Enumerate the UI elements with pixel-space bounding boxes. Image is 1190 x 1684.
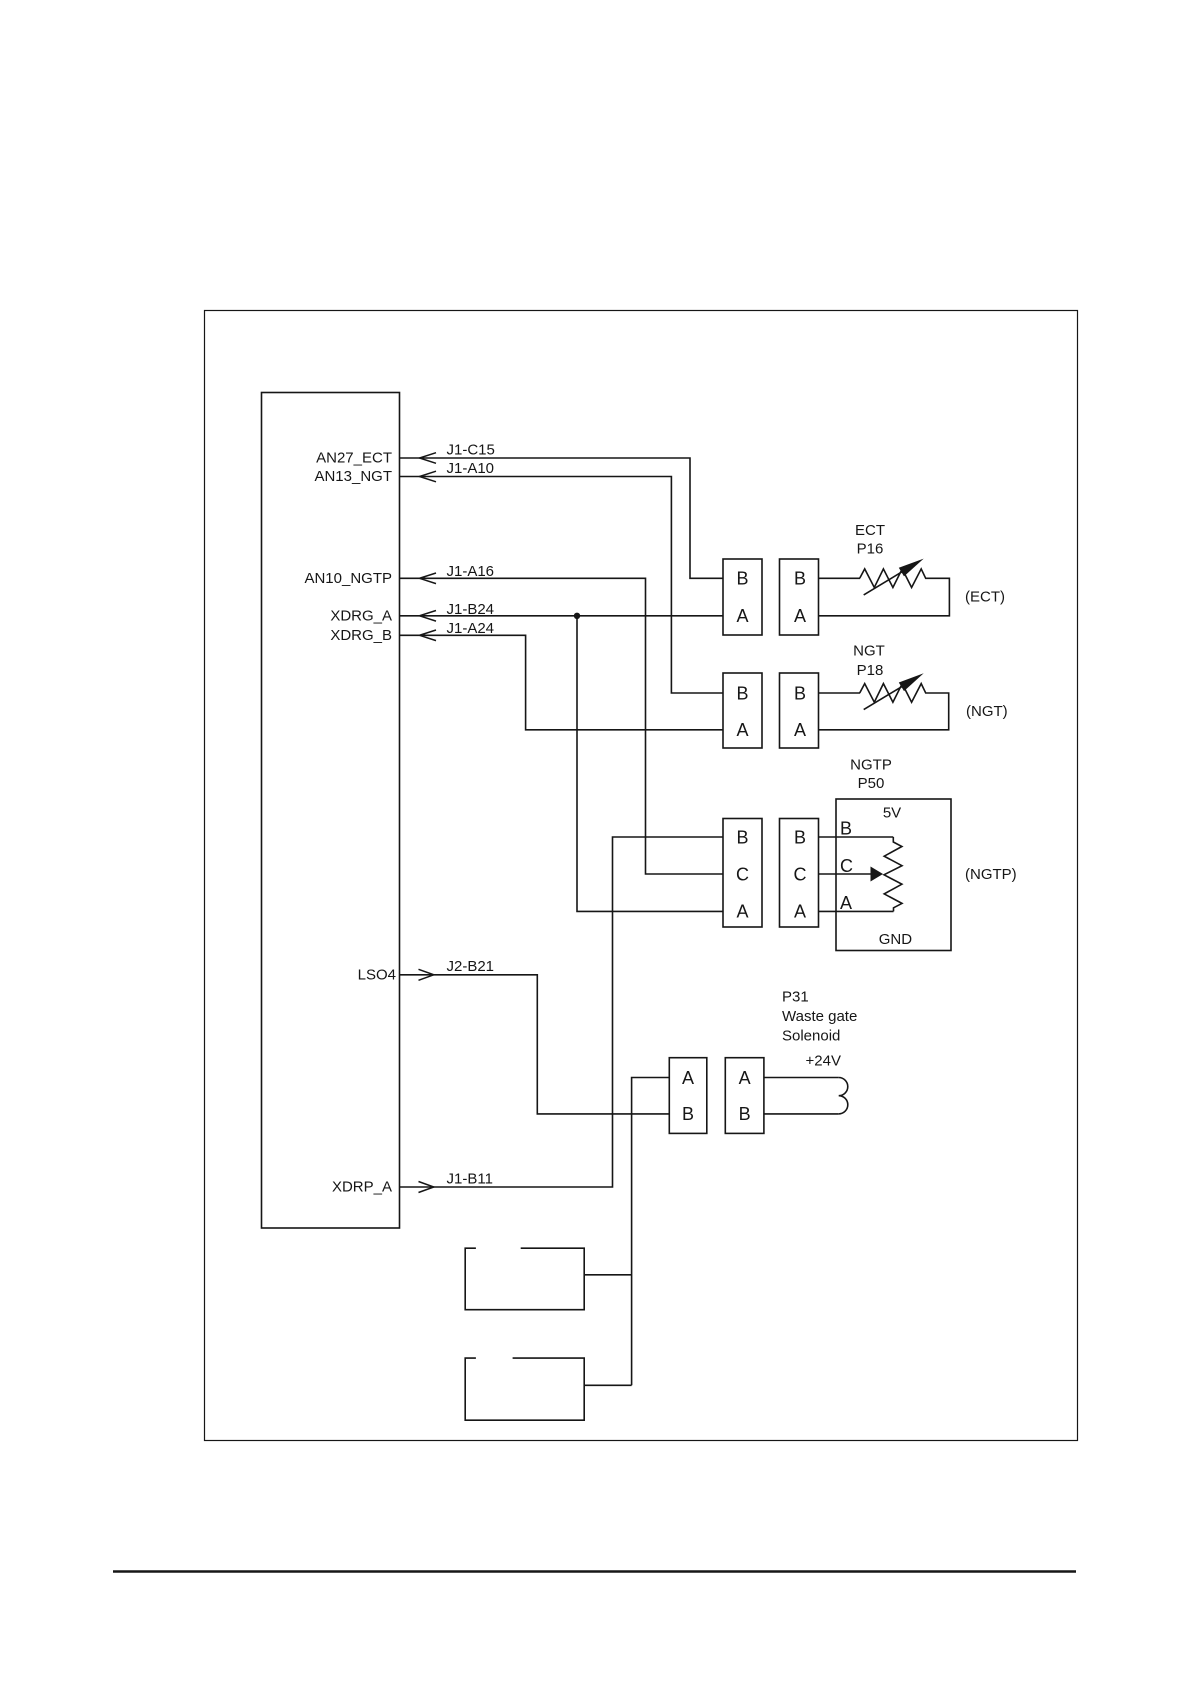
svg-text:J1-B24: J1-B24 — [447, 601, 495, 618]
wire J1-A16 net AN10_NGTP to NGTP connector pin C — [400, 578, 724, 874]
connector ECT left half — [723, 559, 762, 635]
svg-text:P50: P50 — [858, 775, 885, 792]
wire NGTP B into P50 — [819, 836, 894, 838]
arrowhead into XDRG_B — [420, 630, 437, 641]
svg-text:(ECT): (ECT) — [965, 589, 1005, 606]
svg-text:B: B — [736, 683, 748, 703]
thermistor P16 arrow head — [899, 559, 924, 577]
svg-text:B: B — [794, 683, 806, 703]
connector NGTP right half — [780, 819, 819, 928]
svg-text:C: C — [840, 856, 853, 876]
svg-text:+24V: +24V — [806, 1053, 841, 1070]
thermistor P16 wire top — [819, 577, 861, 579]
wire XDRG_A branch to NGTP connector pin A — [577, 616, 723, 912]
svg-text:5V: 5V — [883, 805, 901, 822]
wire solenoid pin B — [764, 1113, 839, 1115]
thermistor P18 wire top — [819, 692, 861, 694]
junction node XDRG_A branch — [574, 613, 580, 619]
thermistor P16 zigzag — [819, 569, 950, 616]
wire J1-A10 net AN13_NGT to NGT connector pin B — [400, 477, 724, 694]
svg-text:B: B — [736, 827, 748, 847]
footer rule — [113, 1570, 1076, 1573]
arrowhead out of LSO4 — [419, 969, 434, 980]
wire J1-A24 net XDRG_B to NGT connector pin A — [400, 635, 724, 730]
thermistor P18 arrow line — [864, 686, 903, 710]
svg-text:P31: P31 — [782, 989, 809, 1006]
solenoid coil L1 — [839, 1078, 848, 1114]
svg-text:GND: GND — [879, 931, 913, 948]
svg-text:A: A — [682, 1068, 694, 1088]
svg-text:XDRG_B: XDRG_B — [330, 627, 392, 644]
connector P31 right half — [725, 1058, 764, 1134]
svg-text:J1-A10: J1-A10 — [447, 460, 495, 477]
svg-text:A: A — [736, 720, 748, 740]
svg-text:B: B — [736, 569, 748, 589]
svg-text:P16: P16 — [857, 541, 884, 558]
svg-text:C: C — [736, 864, 749, 884]
thermistor P16 arrow line — [864, 571, 903, 595]
svg-text:AN10_NGTP: AN10_NGTP — [304, 570, 392, 587]
potentiometer P50 body box — [836, 799, 951, 951]
svg-text:XDRP_A: XDRP_A — [332, 1179, 392, 1196]
svg-text:Solenoid: Solenoid — [782, 1028, 840, 1045]
svg-text:XDRG_A: XDRG_A — [330, 608, 392, 625]
connector P31 left half — [669, 1058, 707, 1134]
arrowhead into XDRG_A — [420, 611, 437, 622]
wire J1-B11 net XDRP_A to NGTP connector pin B — [400, 837, 724, 1187]
svg-text:B: B — [739, 1104, 751, 1124]
svg-text:NGT: NGT — [853, 643, 885, 660]
connector NGT right half — [780, 673, 819, 748]
svg-text:B: B — [794, 827, 806, 847]
svg-text:NGTP: NGTP — [850, 757, 892, 774]
relay contact box 1 (open top) — [465, 1248, 584, 1310]
thermistor P18 arrow head — [899, 673, 924, 691]
svg-text:(NGT): (NGT) — [966, 703, 1008, 720]
svg-text:AN27_ECT: AN27_ECT — [316, 450, 392, 467]
wire NGTP C into P50 wiper — [819, 873, 871, 875]
svg-text:A: A — [840, 893, 852, 913]
arrowhead into AN13_NGT — [420, 471, 437, 482]
connector ECT right half — [780, 559, 819, 635]
svg-text:Waste gate: Waste gate — [782, 1008, 857, 1025]
svg-text:J1-B11: J1-B11 — [447, 1171, 493, 1188]
thermistor P18 zigzag — [819, 684, 949, 730]
svg-text:B: B — [840, 819, 852, 839]
svg-text:A: A — [736, 902, 748, 922]
svg-text:A: A — [736, 606, 748, 626]
svg-text:A: A — [794, 720, 806, 740]
arrowhead into AN27_ECT — [420, 453, 437, 464]
svg-text:J2-B21: J2-B21 — [447, 958, 495, 975]
wire J1-C15 net AN27_ECT to ECT connector pin B — [400, 458, 724, 578]
connector NGTP left half — [723, 819, 762, 928]
potentiometer P50 wiper arrow head — [871, 867, 884, 882]
wire J2-B21 net LSO4 to solenoid connector pin B — [400, 975, 670, 1114]
relay contact box 2 (open top) — [465, 1358, 584, 1420]
wire tee to relay contact box 1 — [584, 1274, 631, 1276]
svg-text:B: B — [794, 569, 806, 589]
svg-text:J1-A16: J1-A16 — [447, 563, 495, 580]
svg-text:(NGTP): (NGTP) — [965, 866, 1017, 883]
arrowhead into AN10_NGTP — [420, 573, 437, 584]
wire to relay contact box 2 — [584, 1384, 631, 1386]
svg-text:ECT: ECT — [855, 522, 885, 539]
wire solenoid A feed corner — [632, 1078, 670, 1386]
svg-text:A: A — [739, 1068, 751, 1088]
connector NGT left half — [723, 673, 762, 748]
svg-text:P18: P18 — [857, 662, 884, 679]
wire NGTP A into P50 — [819, 910, 894, 912]
svg-text:C: C — [794, 864, 807, 884]
svg-text:AN13_NGT: AN13_NGT — [314, 468, 392, 485]
svg-text:A: A — [794, 902, 806, 922]
potentiometer P50 resistive element zigzag — [884, 837, 902, 911]
svg-text:B: B — [682, 1104, 694, 1124]
wire J1-B24 net XDRG_A to ECT connector pin A — [400, 615, 724, 617]
svg-text:A: A — [794, 606, 806, 626]
arrowhead out of XDRP_A — [419, 1182, 434, 1193]
wire solenoid pin A — [764, 1077, 839, 1079]
page border — [205, 311, 1078, 1441]
ECU box — [262, 393, 400, 1229]
svg-text:LSO4: LSO4 — [358, 966, 396, 983]
svg-text:J1-A24: J1-A24 — [447, 620, 495, 637]
svg-text:J1-C15: J1-C15 — [447, 442, 495, 459]
